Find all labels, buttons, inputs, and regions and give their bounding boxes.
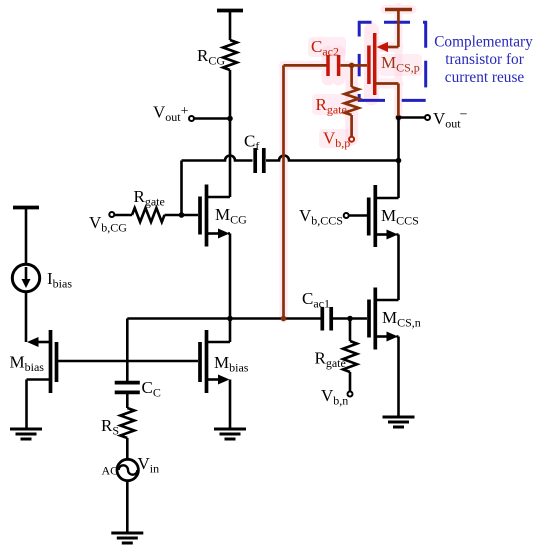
svg-text:current reuse: current reuse (445, 69, 525, 86)
wire (126, 481, 129, 534)
node gate MCS,n (347, 316, 353, 322)
wire (25, 208, 28, 265)
resistor Rgate (CG) (109, 212, 114, 217)
resistor Rgate (n) (349, 319, 352, 342)
wire gate line between Mbias pair (57, 360, 199, 363)
svg-text:transistor for: transistor for (445, 51, 524, 68)
wire red gate lead (352, 64, 367, 67)
wire long horizontal 318 (127, 317, 321, 320)
wire (229, 380, 232, 430)
supply bar left (13, 206, 39, 210)
svg-text:Complementary: Complementary (434, 34, 533, 51)
node junction Cf right (396, 158, 402, 164)
wire (229, 70, 232, 197)
wire (229, 11, 232, 41)
node Vb,CCS (344, 213, 349, 218)
node gate MCG junction (179, 212, 185, 218)
wire (126, 438, 129, 460)
wire (25, 380, 28, 430)
wire MCG source down (229, 234, 232, 343)
svg-text:AC: AC (102, 464, 119, 478)
node Vout- terminal (399, 116, 426, 119)
wire (333, 317, 367, 320)
wire (126, 394, 129, 408)
capacitor CC (115, 381, 140, 385)
transistor MCS,n (367, 300, 371, 338)
node red wire junction 318 (281, 316, 287, 322)
resistor RCG (223, 40, 237, 70)
transistor MCS,p (red) (367, 46, 371, 85)
transistor Mbias (right) (198, 342, 202, 382)
annotation box (blue dashed) (359, 22, 426, 100)
wire MCCS source down to MCS,n drain (397, 235, 400, 301)
resistor Rgate (p, red) (350, 65, 353, 87)
ground (left Mbias) (10, 429, 42, 439)
wire red drain down to Vout- node (397, 84, 400, 117)
wire red vertical down (282, 65, 285, 318)
wire red (397, 10, 400, 48)
ground (right Mbias) (214, 429, 246, 439)
current source Ibias (12, 264, 39, 291)
supply rail top (VDD bar) (217, 9, 243, 13)
capacitor Cf (253, 148, 257, 173)
source Vin (AC) (117, 459, 138, 480)
wire (25, 292, 28, 343)
node red gate junction (349, 63, 355, 69)
wire MCS,n source to ground (397, 337, 400, 418)
node junction at 318 (227, 316, 233, 322)
node junction Vout- (396, 115, 402, 121)
supply rail (red, top right) (385, 8, 412, 12)
capacitor Cac2 (red) (326, 55, 330, 76)
ground (MCS,n) (383, 417, 415, 427)
wire (266, 156, 399, 161)
ground (Vin) (111, 533, 143, 543)
capacitor Cac1 (320, 307, 324, 331)
transistor MCCS (367, 198, 371, 236)
transistor MCG (198, 197, 202, 235)
transistor Mbias (left, mirrored) (55, 342, 59, 382)
resistor RS (120, 408, 134, 438)
annotation text (blue) (434, 34, 533, 87)
wire red to Cac2 left (284, 64, 327, 67)
node Vout+ (227, 116, 233, 122)
wire MCCS column (397, 118, 400, 199)
op wire gate node MCG to Cf (180, 161, 183, 216)
